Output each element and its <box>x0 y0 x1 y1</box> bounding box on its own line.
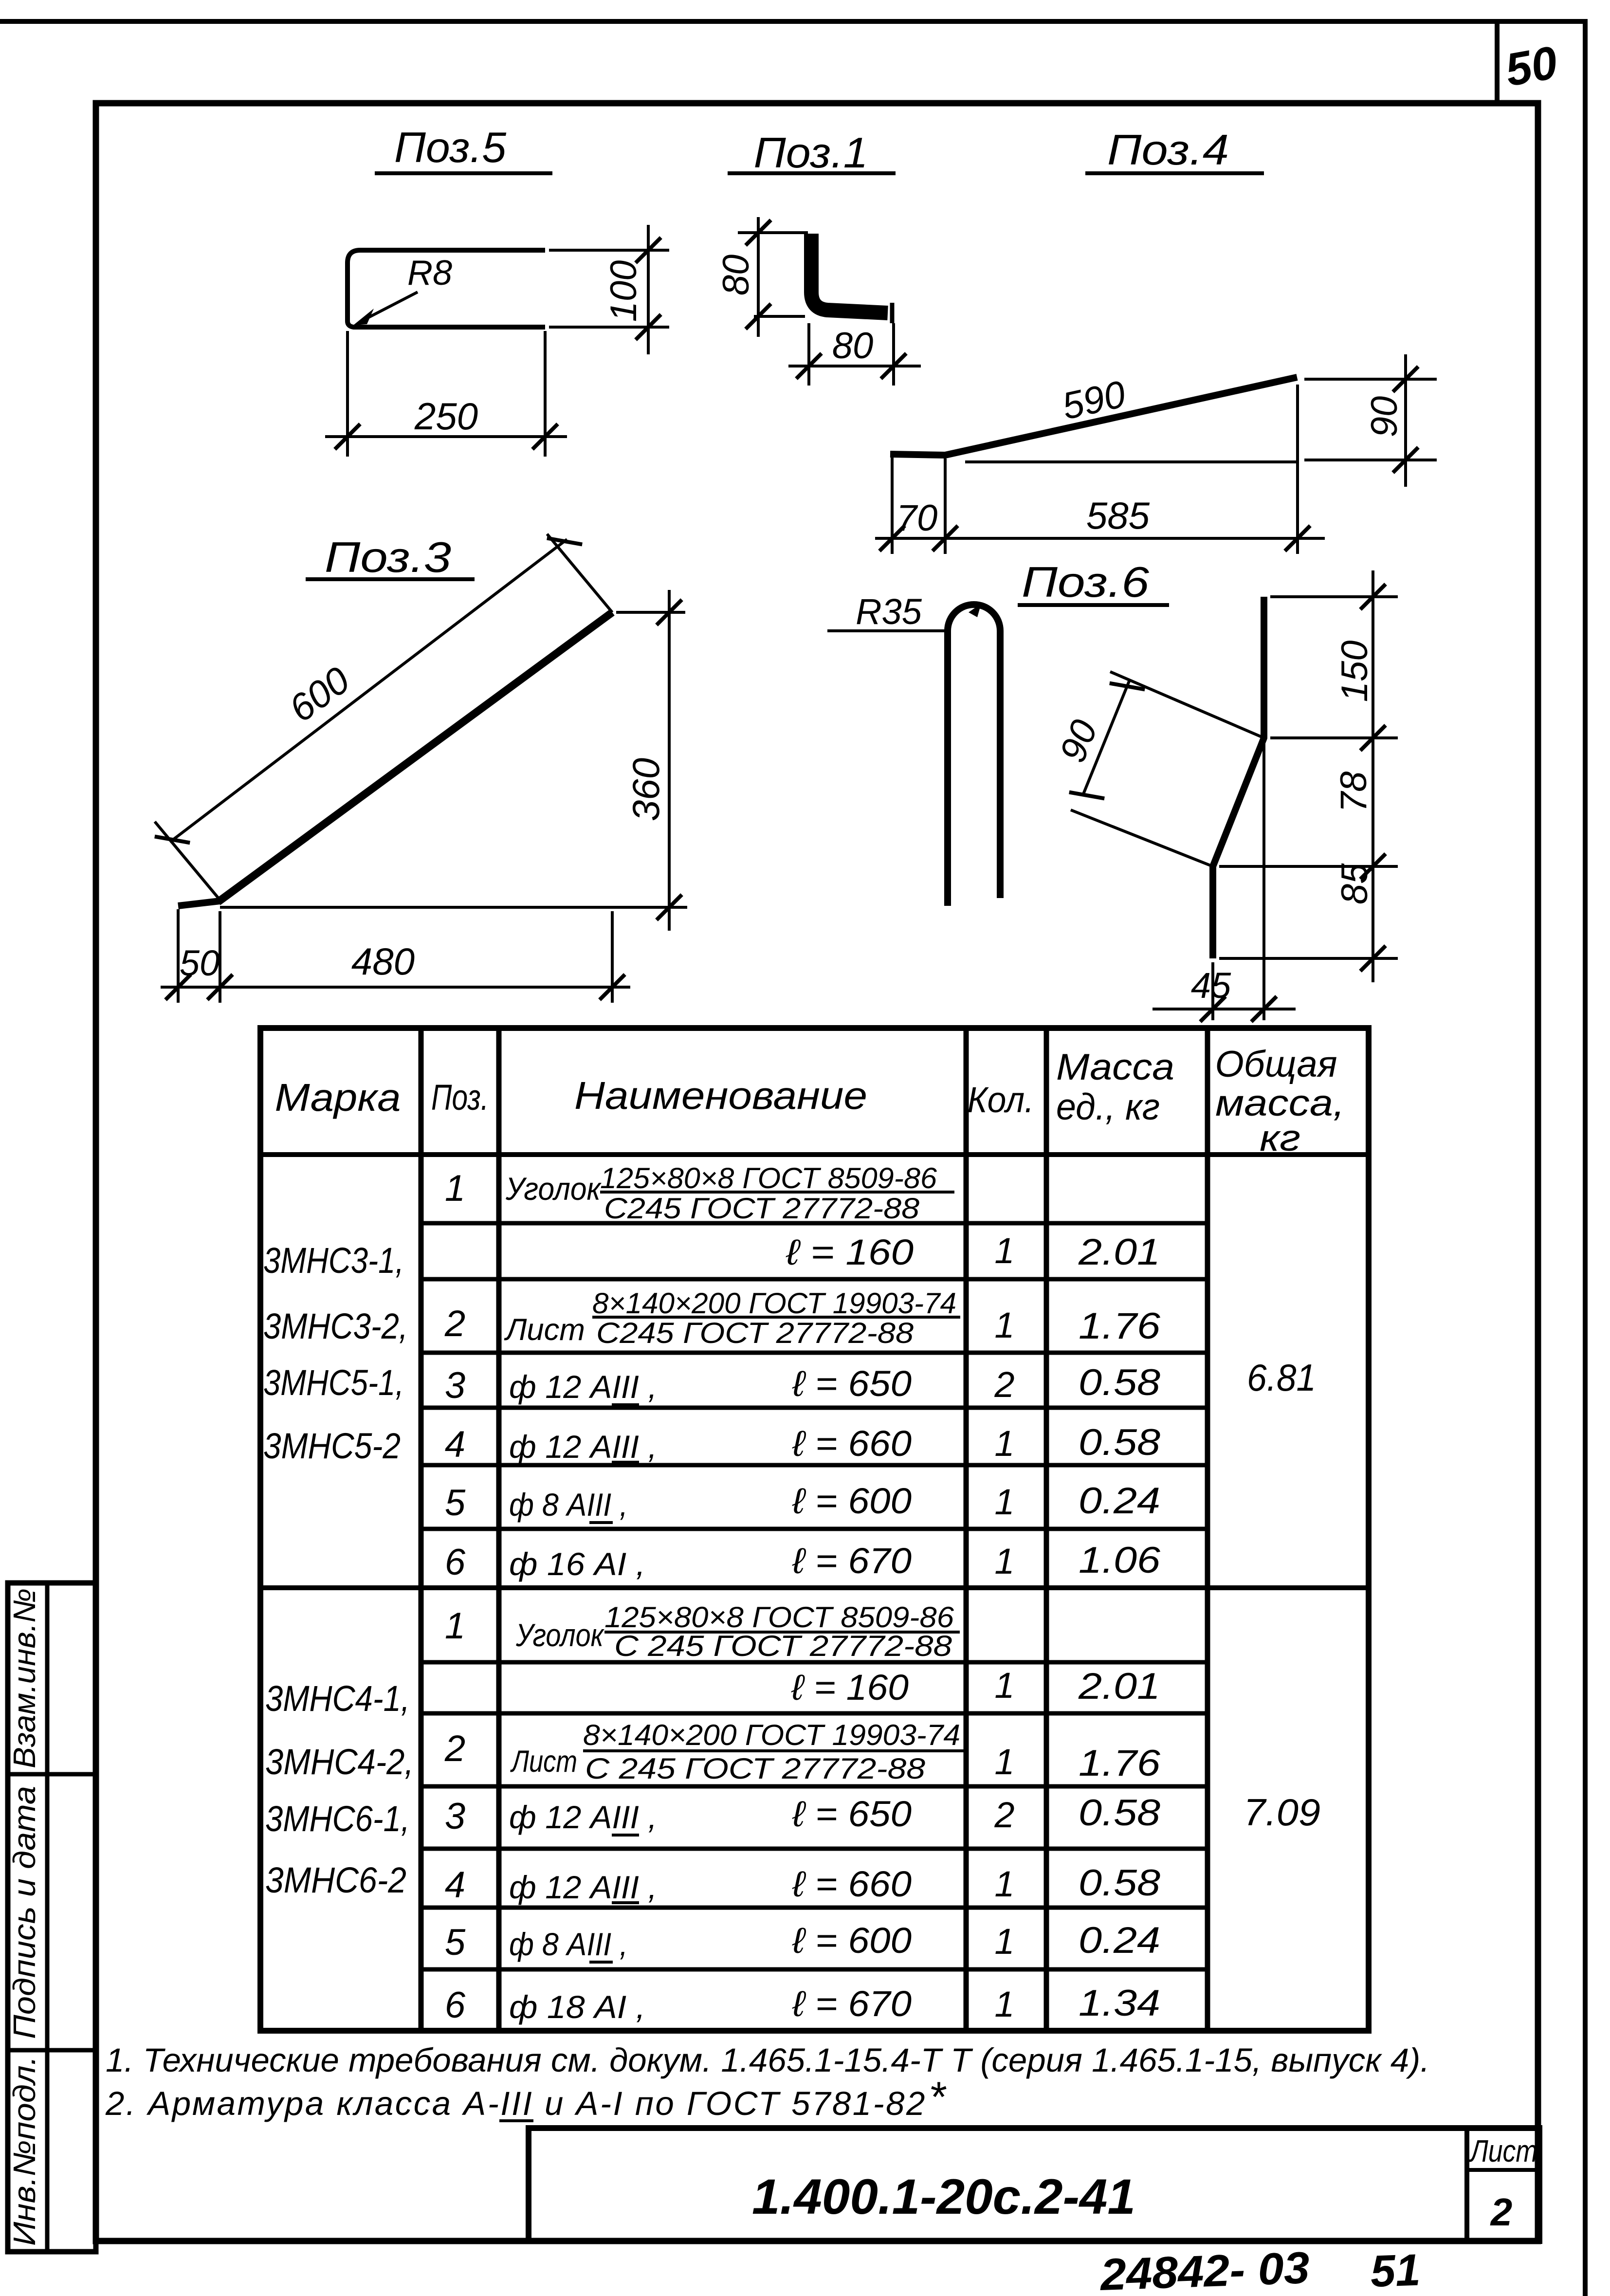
svg-text:Кол.: Кол. <box>968 1080 1034 1120</box>
label Поз.6 <box>1018 558 1169 606</box>
svg-text:8×140×200 ГОСТ 19903-74: 8×140×200 ГОСТ 19903-74 <box>583 1719 960 1751</box>
svg-text:С 245 ГОСТ 27772-88: С 245 ГОСТ 27772-88 <box>614 1630 952 1662</box>
svg-text:ф 12 АIII ,: ф 12 АIII , <box>509 1429 657 1465</box>
svg-text:ℓ = 660: ℓ = 660 <box>792 1864 912 1904</box>
label Поз.5 <box>375 123 552 173</box>
svg-text:1: 1 <box>994 1742 1014 1782</box>
dimension 90 on slant <box>1052 669 1264 866</box>
svg-text:51: 51 <box>1370 2245 1421 2296</box>
svg-text:*: * <box>929 2073 947 2121</box>
svg-text:585: 585 <box>1086 494 1150 537</box>
part Поз.5 bent plate profile <box>348 250 545 327</box>
svg-text:7.09: 7.09 <box>1244 1791 1320 1834</box>
svg-text:1.76: 1.76 <box>1079 1743 1161 1784</box>
svg-text:Лист: Лист <box>510 1745 577 1779</box>
table group 2 row 4 <box>445 1862 1160 1906</box>
svg-text:2: 2 <box>994 1795 1014 1835</box>
svg-text:360: 360 <box>624 758 667 821</box>
label Поз.1 <box>728 129 896 177</box>
svg-text:ℓ = 600: ℓ = 600 <box>792 1920 912 1961</box>
svg-text:125×80×8 ГОСТ 8509-86: 125×80×8 ГОСТ 8509-86 <box>600 1162 937 1194</box>
dimension 50 and 480 bottom of Поз.3 <box>161 909 630 1003</box>
svg-text:2.01: 2.01 <box>1078 1231 1160 1273</box>
svg-text:С245 ГОСТ 27772-88: С245 ГОСТ 27772-88 <box>596 1317 914 1349</box>
svg-text:2: 2 <box>444 1728 465 1769</box>
svg-text:150: 150 <box>1334 641 1375 702</box>
svg-text:R35: R35 <box>856 591 922 632</box>
svg-text:1.76: 1.76 <box>1079 1305 1161 1347</box>
table grid <box>260 1028 1369 2031</box>
svg-text:3МНС5-1,: 3МНС5-1, <box>263 1362 404 1403</box>
part Поз.6 hairpin rod R35 <box>948 604 1000 906</box>
svg-text:ф 12 АIII ,: ф 12 АIII , <box>509 1799 657 1835</box>
part Поз.1 angle profile <box>811 234 892 323</box>
svg-text:6: 6 <box>445 1984 466 2026</box>
svg-text:ф 8 АIII ,: ф 8 АIII , <box>509 1926 628 1962</box>
svg-text:1: 1 <box>445 1168 465 1209</box>
stamp box column bottom-left <box>8 1583 96 2252</box>
dimension 100 vertical <box>549 225 669 354</box>
svg-text:1.34: 1.34 <box>1079 1983 1160 2024</box>
dimensions 150 78 85 right of Поз.6 <box>1219 570 1398 982</box>
dimension 600 along slope <box>155 524 612 900</box>
svg-text:85: 85 <box>1334 863 1375 904</box>
svg-text:50: 50 <box>1501 37 1561 96</box>
svg-text:кг: кг <box>1260 1118 1300 1159</box>
svg-text:5: 5 <box>445 1482 466 1524</box>
svg-text:Подпись и дата: Подпись и дата <box>7 1786 42 2039</box>
svg-text:ф 16 АI ,: ф 16 АI , <box>509 1546 645 1582</box>
table group 1 row 6 <box>445 1540 1161 1583</box>
svg-text:1: 1 <box>445 1605 465 1647</box>
svg-text:ф 12 АIII ,: ф 12 АIII , <box>509 1869 657 1905</box>
svg-text:1: 1 <box>994 1423 1014 1464</box>
svg-text:6.81: 6.81 <box>1247 1356 1316 1399</box>
svg-text:6: 6 <box>445 1542 466 1583</box>
svg-text:Взам.инв.№: Взам.инв.№ <box>7 1588 42 1768</box>
svg-text:0.58: 0.58 <box>1079 1862 1160 1904</box>
svg-text:3МНС4-1,: 3МНС4-1, <box>265 1678 410 1719</box>
svg-text:2. Арматура класса А-III и А: 2. Арматура класса А-III и А-I по ГОСТ 5… <box>105 2085 927 2122</box>
dimension 80 vertical <box>715 217 808 337</box>
svg-text:100: 100 <box>603 260 644 322</box>
table group 2 row 6 <box>445 1983 1160 2026</box>
table group 1 row 2 Лист <box>444 1287 1161 1349</box>
svg-text:3МНС6-2: 3МНС6-2 <box>265 1860 406 1900</box>
svg-text:4: 4 <box>445 1424 465 1465</box>
label Поз.3 <box>306 533 475 581</box>
page number box top right <box>1497 21 1561 103</box>
svg-text:4: 4 <box>445 1864 465 1906</box>
part Поз.6 bent bar <box>1213 597 1264 958</box>
svg-text:2.01: 2.01 <box>1078 1666 1160 1707</box>
svg-text:3МНС3-1,: 3МНС3-1, <box>263 1240 404 1281</box>
svg-text:3: 3 <box>445 1796 465 1837</box>
table group 1 mark labels <box>263 1240 408 1466</box>
svg-text:3МНС6-1,: 3МНС6-1, <box>265 1799 410 1839</box>
svg-text:Поз.1: Поз.1 <box>754 129 868 177</box>
svg-text:ℓ = 670: ℓ = 670 <box>792 1541 912 1581</box>
svg-text:8×140×200 ГОСТ 19903-74: 8×140×200 ГОСТ 19903-74 <box>592 1287 956 1320</box>
svg-text:ф 8 АIII ,: ф 8 АIII , <box>509 1487 628 1523</box>
svg-text:2: 2 <box>1490 2190 1513 2234</box>
note 2 reinforcement classes <box>105 2073 947 2122</box>
svg-text:480: 480 <box>351 940 415 983</box>
svg-text:ф 18 АI ,: ф 18 АI , <box>509 1989 645 2025</box>
svg-text:0.58: 0.58 <box>1079 1792 1160 1834</box>
projection line Поз.4 <box>965 460 1299 463</box>
svg-text:ф 12 АIII ,: ф 12 АIII , <box>509 1369 657 1405</box>
dimension 45 bottom of Поз.6 <box>1153 742 1296 1022</box>
svg-text:Уголок: Уголок <box>515 1617 604 1653</box>
svg-text:Масса: Масса <box>1056 1047 1174 1088</box>
handwritten inventory number 24842-03 51 <box>1098 2243 1421 2296</box>
dimension 70 and 585 bottom of Поз.4 <box>875 385 1325 554</box>
svg-text:3МНС4-2,: 3МНС4-2, <box>265 1742 414 1782</box>
svg-text:2: 2 <box>444 1303 465 1344</box>
svg-text:ℓ = 600: ℓ = 600 <box>792 1481 912 1521</box>
table group 2 row 5 <box>445 1920 1160 1963</box>
svg-text:1: 1 <box>994 1864 1014 1904</box>
table group 2 row l=160 <box>791 1665 1160 1708</box>
svg-text:ℓ = 650: ℓ = 650 <box>792 1363 912 1404</box>
svg-text:С 245 ГОСТ 27772-88: С 245 ГОСТ 27772-88 <box>585 1752 926 1785</box>
svg-text:0.24: 0.24 <box>1079 1480 1160 1522</box>
part Поз.3 bent rod <box>178 612 612 906</box>
svg-text:0.58: 0.58 <box>1079 1422 1160 1463</box>
svg-text:3МНС5-2: 3МНС5-2 <box>263 1426 401 1466</box>
table group 2 row 2 Лист <box>444 1719 1161 1785</box>
dimension 250 horizontal <box>325 331 567 457</box>
svg-text:1: 1 <box>994 1541 1014 1581</box>
svg-text:80: 80 <box>832 325 874 367</box>
title block box <box>529 2128 1539 2241</box>
label Поз.4 <box>1085 126 1264 174</box>
svg-text:Поз.6: Поз.6 <box>1022 558 1149 606</box>
table group 2 row 3 <box>445 1792 1160 1837</box>
table header texts <box>275 1044 1345 1159</box>
svg-text:1. Технические требования см.: 1. Технические требования см. докум. 1.4… <box>106 2041 1429 2079</box>
part Поз.4 bent rod <box>890 377 1297 455</box>
table group 1 row l=160 <box>786 1231 1160 1273</box>
table group 1 row 3 <box>445 1362 1160 1406</box>
svg-text:ℓ = 160: ℓ = 160 <box>786 1232 914 1272</box>
svg-text:3: 3 <box>445 1365 465 1406</box>
dimension 360 vertical <box>220 590 687 931</box>
svg-text:1: 1 <box>994 1482 1014 1522</box>
svg-text:50: 50 <box>180 943 220 983</box>
svg-text:250: 250 <box>414 395 478 438</box>
svg-text:ℓ = 660: ℓ = 660 <box>792 1423 912 1464</box>
sheet right border line <box>1583 21 1588 2296</box>
svg-text:78: 78 <box>1333 771 1374 813</box>
dimension 90 right of Поз.4 <box>1304 354 1437 487</box>
svg-text:Уголок: Уголок <box>505 1171 602 1207</box>
svg-text:Поз.5: Поз.5 <box>394 123 507 171</box>
svg-text:2: 2 <box>994 1364 1014 1405</box>
svg-text:ед., кг: ед., кг <box>1056 1086 1160 1128</box>
svg-text:70: 70 <box>896 497 938 539</box>
svg-text:Наименование: Наименование <box>574 1074 867 1117</box>
svg-text:1: 1 <box>994 1984 1014 2024</box>
svg-text:ℓ = 650: ℓ = 650 <box>792 1794 912 1834</box>
svg-text:Лист: Лист <box>504 1313 585 1347</box>
svg-text:R8: R8 <box>407 254 452 293</box>
svg-text:Лист: Лист <box>1469 2133 1537 2168</box>
table group 1 row 1 Уголок <box>445 1162 954 1225</box>
dimension 80 horizontal <box>788 323 921 386</box>
sheet top border line <box>0 19 1588 24</box>
svg-text:Поз.4: Поз.4 <box>1107 126 1229 174</box>
svg-text:ℓ = 160: ℓ = 160 <box>791 1667 909 1708</box>
svg-text:0.58: 0.58 <box>1079 1362 1160 1403</box>
table group 1 row 5 <box>445 1480 1160 1524</box>
svg-text:1: 1 <box>994 1921 1014 1962</box>
svg-text:80: 80 <box>715 255 757 296</box>
svg-text:1.06: 1.06 <box>1079 1540 1161 1581</box>
svg-text:1: 1 <box>994 1305 1014 1345</box>
svg-text:1.400.1-20с.2-41: 1.400.1-20с.2-41 <box>752 2169 1135 2224</box>
table group 2 mark labels <box>265 1678 414 1900</box>
svg-text:1: 1 <box>994 1231 1014 1271</box>
svg-text:ℓ = 670: ℓ = 670 <box>792 1984 912 2024</box>
svg-text:125×80×8 ГОСТ 8509-86: 125×80×8 ГОСТ 8509-86 <box>604 1601 954 1634</box>
table group 2 row 1 Уголок <box>445 1601 960 1662</box>
svg-text:90: 90 <box>1364 396 1405 438</box>
table group 1 row 4 <box>445 1422 1160 1465</box>
leader R8 <box>353 254 452 325</box>
leader R35 <box>827 591 949 632</box>
svg-text:0.24: 0.24 <box>1079 1920 1160 1961</box>
svg-text:5: 5 <box>445 1922 466 1963</box>
svg-text:Марка: Марка <box>275 1076 401 1119</box>
svg-text:Поз.3: Поз.3 <box>325 533 451 581</box>
svg-text:1: 1 <box>994 1665 1014 1706</box>
svg-text:3МНС3-2,: 3МНС3-2, <box>263 1306 408 1346</box>
svg-text:Общая: Общая <box>1215 1044 1337 1085</box>
svg-text:45: 45 <box>1191 965 1231 1006</box>
svg-text:24842- 03: 24842- 03 <box>1098 2243 1310 2296</box>
svg-text:Инв.№подл.: Инв.№подл. <box>7 2056 42 2246</box>
svg-text:С245 ГОСТ 27772-88: С245 ГОСТ 27772-88 <box>604 1192 920 1225</box>
svg-text:Поз.: Поз. <box>431 1077 489 1118</box>
